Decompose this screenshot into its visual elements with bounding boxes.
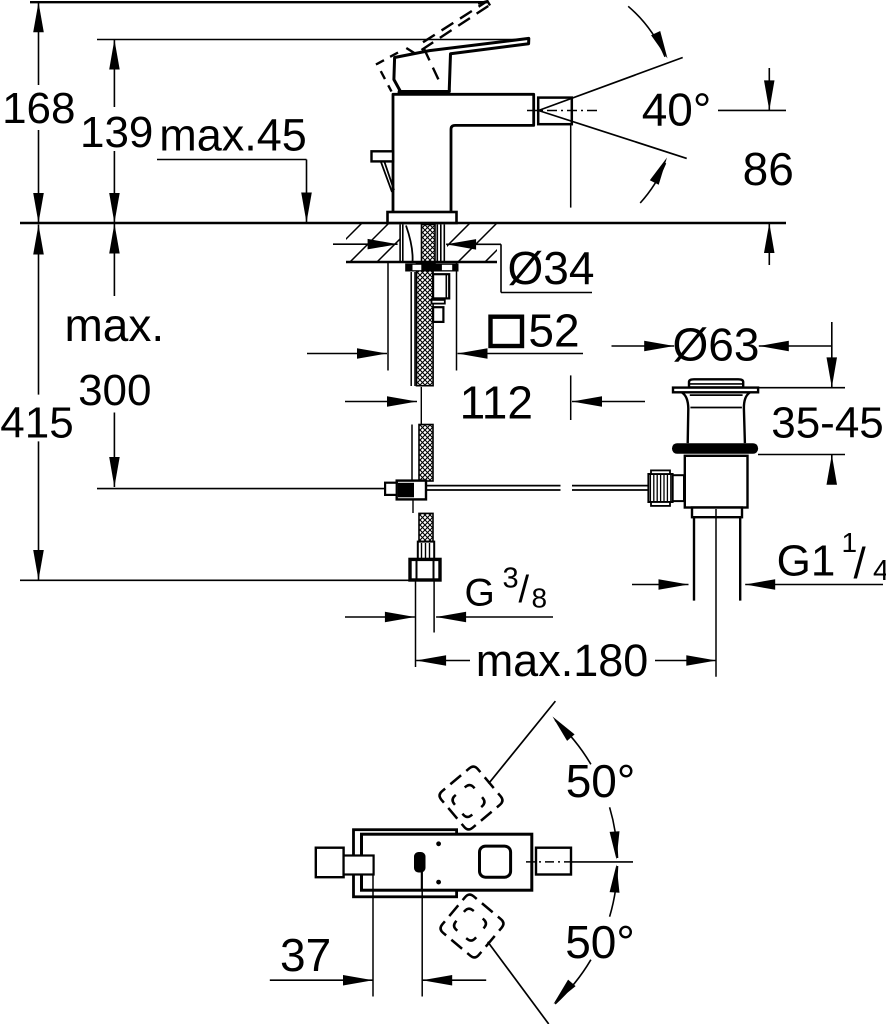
- pop-up pull rod: [381, 162, 392, 192]
- handle position upper (dashed squares): [437, 764, 504, 831]
- svg-text:8: 8: [532, 583, 548, 614]
- dimension 37: [372, 875, 374, 997]
- waste cone neck: [682, 393, 688, 444]
- svg-text:/: /: [519, 569, 530, 611]
- handle raised position (dashed): [423, 1, 487, 42]
- reference line rod level (max.300 bottom): [97, 488, 385, 490]
- top view knob shaft: [344, 856, 374, 875]
- faucet body outline: [393, 94, 534, 212]
- top view body: [362, 834, 532, 890]
- 40 degree arc lower: [640, 163, 665, 203]
- dimension diameter 34: [333, 243, 398, 245]
- svg-text:G1: G1: [777, 537, 836, 586]
- svg-text:G: G: [465, 572, 495, 615]
- dimension 139: [113, 40, 115, 108]
- svg-text:4: 4: [873, 555, 886, 587]
- svg-text:/: /: [854, 539, 867, 588]
- 50 degree line upper: [489, 701, 556, 784]
- top view centerline: [526, 861, 571, 863]
- svg-text:35-45: 35-45: [771, 399, 884, 448]
- supply pipe end: [415, 580, 417, 667]
- svg-text:40°: 40°: [642, 84, 712, 136]
- tee nipple: [385, 483, 397, 495]
- svg-text:50°: 50°: [566, 755, 636, 807]
- svg-text:112: 112: [460, 376, 533, 428]
- svg-text:52: 52: [528, 305, 579, 357]
- hose end ribbed sleeve: [418, 542, 434, 560]
- dimension max.300: [113, 224, 115, 297]
- supply hose middle segment (braided): [419, 425, 433, 482]
- projection line plate right: [456, 263, 458, 371]
- waste knurled knob: [673, 475, 684, 501]
- 40 degree arc upper: [628, 6, 665, 57]
- 50 degree line lower: [488, 942, 549, 1024]
- dimension max.180: [416, 655, 446, 666]
- svg-text:max.45: max.45: [159, 109, 307, 160]
- handle lever: [394, 38, 529, 91]
- horizontal pop-up rod: [426, 485, 561, 487]
- supply hose upper segment (braided): [422, 225, 436, 264]
- svg-text:168: 168: [2, 84, 75, 133]
- waste top flange: [673, 388, 758, 393]
- svg-text:Ø63: Ø63: [673, 319, 760, 371]
- waste outlet ring: [692, 508, 742, 518]
- top view cartridge square: [480, 846, 511, 877]
- hose connector bracket: [433, 274, 449, 298]
- top view pop-up knob: [316, 848, 344, 878]
- reference line at raised lever tip (168 top): [30, 1, 487, 3]
- top view escutcheon plate: [354, 830, 457, 897]
- svg-text:139: 139: [80, 108, 153, 157]
- top view lever end (black): [414, 852, 426, 873]
- handle position lower (dashed squares): [438, 892, 505, 959]
- waste lift knob cap: [689, 379, 743, 387]
- G3/8 nut: [410, 559, 440, 580]
- dimension 168: [38, 2, 40, 85]
- counter hatching: [322, 223, 524, 263]
- pop-up rod tee fitting: [397, 481, 426, 500]
- mounting nut: [405, 264, 458, 272]
- svg-text:Ø34: Ø34: [508, 242, 595, 294]
- aerator projection line: [570, 124, 572, 207]
- pop-up pull rod knob: [372, 151, 394, 161]
- waste gasket (black): [672, 443, 758, 454]
- waste rod centerline: [715, 509, 717, 677]
- spray line upper: [539, 58, 683, 111]
- dimension diameter 63: [612, 345, 675, 347]
- 50 degree arc upper: [555, 720, 591, 764]
- svg-text:50°: 50°: [565, 916, 635, 968]
- svg-text:3: 3: [503, 563, 519, 595]
- counter bottom line: [346, 261, 497, 263]
- dimension 86: [768, 68, 770, 110]
- 50 degree arc lower: [610, 866, 618, 917]
- svg-text:415: 415: [0, 398, 73, 447]
- dimension 35-45: [758, 387, 845, 389]
- projection line plate left: [387, 263, 389, 371]
- dimension 415: [38, 225, 40, 395]
- svg-text:86: 86: [743, 143, 794, 195]
- base plate: [388, 212, 457, 223]
- top view aerator stub: [536, 848, 571, 875]
- spray line lower: [539, 111, 687, 159]
- counter top line: [20, 222, 786, 224]
- svg-text:max.: max.: [64, 299, 164, 351]
- waste body: [685, 456, 748, 508]
- svg-text:max.180: max.180: [476, 635, 649, 686]
- aerator: [538, 98, 572, 125]
- top view pivot dots: [436, 841, 441, 846]
- dimension 112: [345, 401, 417, 403]
- waste outlet pipe: [693, 517, 695, 600]
- handle joint dome: [399, 84, 417, 93]
- dimension square 52: [491, 317, 523, 346]
- pop-up rod guide curve: [399, 225, 401, 263]
- shank right lines: [436, 225, 438, 264]
- svg-text:300: 300: [78, 366, 151, 415]
- hose break line: [420, 387, 422, 424]
- svg-text:37: 37: [280, 929, 331, 981]
- aerator centerline (dash-dot): [527, 110, 598, 112]
- reference line at lever tip (139 top): [97, 39, 527, 41]
- reference line hose end (415 bottom): [20, 579, 412, 581]
- supply hose lower segment (braided): [412, 499, 414, 513]
- pop-up rod below nut: [410, 272, 412, 386]
